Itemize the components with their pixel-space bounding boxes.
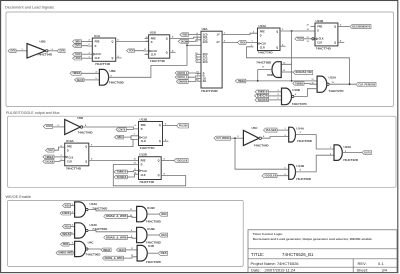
net label DEC6 (row3 to U4D) xyxy=(116,248,125,252)
svg-text:11: 11 xyxy=(131,248,133,250)
svg-text:TMIE6: TMIE6 xyxy=(116,172,127,174)
flip-flop U12A xyxy=(258,28,281,51)
inverter U5C xyxy=(243,130,259,145)
svg-text:74HCT32D: 74HCT32D xyxy=(146,260,162,264)
svg-text:U5C: U5C xyxy=(252,126,259,130)
svg-text:CLR: CLR xyxy=(141,140,146,143)
wire and row1 output to WE6 label xyxy=(147,213,159,215)
svg-text:U13D: U13D xyxy=(147,206,156,210)
or-gate U4D xyxy=(137,245,147,261)
svg-text:Q: Q xyxy=(85,160,87,163)
svg-text:U13B: U13B xyxy=(140,117,149,121)
svg-text:TOGGLE6: TOGGLE6 xyxy=(264,176,277,178)
svg-text:11: 11 xyxy=(130,209,132,211)
svg-text:TMIE6: TMIE6 xyxy=(75,41,81,43)
svg-text:CLR: CLR xyxy=(151,54,156,57)
svg-text:74HCT74D: 74HCT74D xyxy=(150,59,166,63)
svg-text:Q: Q xyxy=(166,51,168,54)
nor-gate U15A xyxy=(317,76,327,92)
svg-text:2C3: 2C3 xyxy=(203,60,208,64)
wire PULSE6 to U14A input 1 xyxy=(277,129,289,131)
svg-text:74HCT74D: 74HCT74D xyxy=(258,51,274,55)
junction U12A Q branch on long wire xyxy=(291,80,293,82)
net label OUT6 xyxy=(362,151,372,155)
net label CNT6 (output of U5B) xyxy=(57,49,65,53)
and-gate U6D (mirrored) xyxy=(272,62,281,78)
svg-text:12: 12 xyxy=(131,255,133,257)
flip-flop U13B xyxy=(139,122,163,146)
wire TOGGLE6 to U14B input 2 xyxy=(277,175,289,177)
svg-text:RATIO0_6: RATIO0_6 xyxy=(177,72,188,75)
svg-text:U4D: U4D xyxy=(148,244,155,248)
svg-text:PRE: PRE xyxy=(95,40,100,43)
wire nand row1 output to and row1 input 1 xyxy=(88,210,137,211)
net label WR6 (U4C input 1) xyxy=(61,243,69,247)
svg-text:U13B: U13B xyxy=(147,227,156,231)
svg-text:U5B: U5B xyxy=(40,40,47,44)
svg-text:TMIE6: TMIE6 xyxy=(45,157,54,159)
wire U4D output to OE6 label xyxy=(147,252,158,254)
wires TMIE6 to U13B CLK and CLR xyxy=(124,136,139,137)
svg-text:74HCT74D: 74HCT74D xyxy=(139,180,155,184)
svg-text:Q: Q xyxy=(159,124,161,127)
net label WE6 (row3 mid) xyxy=(101,248,111,252)
svg-text:11: 11 xyxy=(312,79,314,81)
svg-text:3: 3 xyxy=(278,90,279,92)
svg-text:WR6: WR6 xyxy=(63,244,69,246)
svg-text:RD6: RD6 xyxy=(62,213,70,215)
svg-text:D: D xyxy=(151,41,153,44)
svg-text:U14B: U14B xyxy=(296,164,305,168)
svg-text:74HCT00D: 74HCT00D xyxy=(85,252,101,256)
net label TACK6 (U12B CLK) xyxy=(295,37,304,40)
svg-text:Date:: Date: xyxy=(251,268,261,273)
svg-text:TMIE6: TMIE6 xyxy=(182,34,188,36)
wire OUT_MODE6 to U5C input xyxy=(231,137,244,139)
wires into U13D CLK/CLR xyxy=(127,171,138,172)
svg-text:74HCT27D: 74HCT27D xyxy=(292,102,308,106)
flip-flop U1B xyxy=(149,35,170,58)
svg-text:U14A: U14A xyxy=(296,126,305,130)
inverter U5B xyxy=(27,44,46,59)
svg-text:TACK6: TACK6 xyxy=(297,38,303,41)
net label OE6 (row3 output) xyxy=(158,251,167,255)
pin numbers mux left group1 (6,5,4,3) xyxy=(197,33,199,43)
net label DEC6 (U6B input 2) xyxy=(75,78,85,82)
svg-text:74HCT74D: 74HCT74D xyxy=(66,166,82,170)
svg-text:Q: Q xyxy=(112,40,114,43)
svg-text:U12B: U12B xyxy=(316,19,325,23)
svg-text:TMIE6: TMIE6 xyxy=(72,73,81,75)
svg-text:D: D xyxy=(95,45,97,48)
net label PULSE6 (U14A input 1) xyxy=(264,128,278,132)
net label PULSE6 xyxy=(177,124,189,128)
svg-text:CNT6: CNT6 xyxy=(59,51,64,53)
svg-text:74HCT08D: 74HCT08D xyxy=(146,219,162,223)
wires into U1A left pins xyxy=(82,41,93,43)
or-gate U16A xyxy=(334,145,342,161)
svg-text:U4C: U4C xyxy=(88,240,95,244)
wire junction down to U6D input and U15A input (vertical) xyxy=(281,31,291,64)
junction at mux pin tap xyxy=(186,45,188,47)
wire DMAB label row2 to and gate input 2 xyxy=(127,236,136,239)
svg-text:74HCT6526_B1: 74HCT6526_B1 xyxy=(282,252,314,257)
svg-text:U15A: U15A xyxy=(329,76,338,80)
net label TACK6 (U16B input 3) xyxy=(255,98,269,102)
svg-text:U12A: U12A xyxy=(259,24,268,28)
pin numbers mux A,B,1G,2G (14,2,1,15) xyxy=(196,71,199,82)
inverter U5D xyxy=(65,119,81,134)
net label DECREMENT6 xyxy=(350,25,371,29)
nand-gate U13A (WE/OE section) xyxy=(75,202,86,217)
stub U12B PRE xyxy=(311,26,316,28)
svg-text:CLK: CLK xyxy=(142,136,147,139)
svg-text:74HCT08D: 74HCT08D xyxy=(109,80,125,84)
svg-text:PULSE6: PULSE6 xyxy=(266,130,277,132)
svg-text:TACK6: TACK6 xyxy=(129,50,134,53)
wire U6D input2 from MODE/PER_SW label xyxy=(281,71,293,73)
svg-text:D: D xyxy=(141,128,143,131)
svg-text:D: D xyxy=(67,150,69,153)
and-gate U14A xyxy=(289,127,296,142)
net label OE6 (row2 output) xyxy=(159,233,168,237)
section box: PULSE/TOGGLE output and Mux xyxy=(8,116,397,187)
svg-text:Q: Q xyxy=(334,41,336,44)
svg-text:3/4: 3/4 xyxy=(382,268,388,273)
svg-text:CNT6: CNT6 xyxy=(75,46,82,48)
net label TMIE6 (U15A input 2) xyxy=(293,82,304,86)
svg-text:74HCT04D: 74HCT04D xyxy=(254,143,270,147)
net label RATIO0 (mux A) xyxy=(175,71,188,75)
junction U6D output on long wire xyxy=(257,80,259,82)
svg-text:74HCT74D: 74HCT74D xyxy=(316,47,332,51)
svg-text:REV:: REV: xyxy=(358,261,367,266)
svg-text:CLR: CLR xyxy=(260,46,265,49)
net label TMIE6 (U13B CLK/CLR) xyxy=(115,135,124,139)
svg-text:CLR: CLR xyxy=(141,174,146,177)
net label DMAB_&_WR6 (row2) xyxy=(104,235,128,239)
wire DMAB label row3 to U4D input 2 xyxy=(124,257,138,258)
flip-flop U13D xyxy=(139,157,162,180)
net label TOGGLE6 xyxy=(174,158,188,162)
wire TACK6 to U1B CLK xyxy=(135,50,149,52)
svg-text:TMIE6: TMIE6 xyxy=(295,83,304,85)
svg-text:CLR_PERIOD6: CLR_PERIOD6 xyxy=(358,84,376,86)
svg-text:Q: Q xyxy=(159,140,161,143)
and-gate U6B xyxy=(99,69,108,85)
wire U16B output up to U15A input 3 xyxy=(294,89,317,97)
svg-text:74HCT08D: 74HCT08D xyxy=(297,139,313,143)
net label TRIG6 (on 2Y wire) xyxy=(237,41,246,45)
net label TACK6 (U5D input) xyxy=(43,124,52,128)
junction Qbar branch with U15A output xyxy=(349,83,351,85)
svg-text:U6D: U6D xyxy=(267,73,274,77)
svg-text:TRIG6: TRIG6 xyxy=(116,177,127,179)
wire and row2 output to OE6 label xyxy=(147,234,159,236)
wire TACK6 to U12B CLK bubble xyxy=(304,38,312,40)
svg-text:U5D: U5D xyxy=(77,116,84,120)
svg-text:PULSE/TOGGLE output and Mux: PULSE/TOGGLE output and Mux xyxy=(6,111,60,115)
svg-text:CLK: CLK xyxy=(142,170,147,173)
svg-text:0.1: 0.1 xyxy=(378,261,384,266)
svg-text:PRE: PRE xyxy=(141,159,146,162)
svg-text:PRE: PRE xyxy=(317,25,322,28)
svg-text:CLR: CLR xyxy=(95,57,100,60)
wires into nand U13C xyxy=(71,226,75,228)
and-gate U14B xyxy=(289,165,296,180)
net label TMIE6 (U6B input 1) xyxy=(70,71,81,75)
svg-text:WE/OE Enable: WE/OE Enable xyxy=(6,195,32,199)
svg-text:74HCT27D: 74HCT27D xyxy=(329,89,345,93)
wire U12A CLR to CLR_PERIOD node (long route) xyxy=(247,47,350,84)
svg-text:TMIE6: TMIE6 xyxy=(257,92,268,94)
wire TMIE6 to U15A input 2 xyxy=(304,82,317,85)
svg-text:CLK: CLK xyxy=(319,38,324,41)
wire CNT6 label stub xyxy=(126,129,133,131)
net label CLR_PERIOD6 xyxy=(356,82,376,86)
svg-text:Q: Q xyxy=(112,57,114,60)
svg-text:DMAB_&_WR6: DMAB_&_WR6 xyxy=(105,257,124,260)
net label WE6 (U13C input 2) xyxy=(60,232,71,236)
svg-text:CLK: CLK xyxy=(96,53,101,56)
net label WE6 (U13A-gate input 1) xyxy=(62,204,70,208)
svg-text:DEC6: DEC6 xyxy=(77,80,84,82)
net label RD6 (U13A-gate input 2) xyxy=(60,212,71,216)
svg-text:CLR: CLR xyxy=(317,41,322,44)
stubs mux 2C pins xyxy=(196,53,201,55)
net label TMIE6 (U13A CLK) xyxy=(43,155,54,159)
svg-text:D: D xyxy=(317,29,319,32)
clock bubble U12B xyxy=(312,38,314,40)
svg-text:Sheet:: Sheet: xyxy=(357,268,369,273)
net label DMAB_&_WR6 (row1) xyxy=(104,214,128,218)
svg-text:74HCT08D: 74HCT08D xyxy=(296,177,312,181)
net label CNT6 (on U5D output wire) xyxy=(116,128,126,132)
wire U4C output to WE6 label xyxy=(88,248,101,250)
svg-text:TMIE6: TMIE6 xyxy=(238,81,246,83)
flip-flop U1A xyxy=(92,38,115,61)
net label DMAB6 (mux strobe) xyxy=(176,80,188,84)
svg-text:U1A: U1A xyxy=(94,34,101,38)
net label MODE/PER_SW6 xyxy=(293,70,313,74)
svg-text:TACK6: TACK6 xyxy=(257,99,268,102)
junction on U12A Q wire xyxy=(291,30,293,32)
svg-text:PRE: PRE xyxy=(67,146,72,149)
net label PULSE6 (U13A PRE) xyxy=(46,148,55,152)
svg-text:TRIG6: TRIG6 xyxy=(240,42,246,44)
wire DEC6 to U4D input 1 xyxy=(126,249,138,251)
net label LOAD6 (U1A CLR) xyxy=(73,57,82,61)
svg-text:OE6: OE6 xyxy=(161,235,167,237)
svg-text:TACK6: TACK6 xyxy=(45,160,54,163)
svg-text:Project Name: 74HCT6526: Project Name: 74HCT6526 xyxy=(251,261,300,266)
wire CNT6 to U5B input xyxy=(16,50,27,52)
svg-text:CNT6: CNT6 xyxy=(118,129,126,131)
svg-text:MODE/PER_SW6: MODE/PER_SW6 xyxy=(296,72,313,74)
wire nand row2 output to and row2 input 1 xyxy=(88,231,137,232)
wire DMAB label row1 to and gate input 2 xyxy=(127,216,136,217)
svg-text:TOGGLE6: TOGGLE6 xyxy=(176,160,188,162)
svg-text:TACK6: TACK6 xyxy=(75,53,81,56)
net label WE6 (row1 output) xyxy=(159,212,168,216)
wire U6D output to lower node xyxy=(258,70,272,81)
svg-text:PRE: PRE xyxy=(141,124,146,127)
svg-text:Q: Q xyxy=(158,174,160,177)
svg-text:PRE: PRE xyxy=(151,37,156,40)
svg-text:13: 13 xyxy=(134,173,136,175)
net label CNT6 (input to U5B) xyxy=(8,49,16,53)
svg-text:74HCT08D: 74HCT08D xyxy=(256,60,272,64)
svg-text:U13D: U13D xyxy=(139,153,148,157)
svg-text:CLK: CLK xyxy=(261,43,266,46)
svg-text:Decrement and Load generator,: Decrement and Load generator, Outpu gene… xyxy=(253,237,372,241)
svg-text:U13A: U13A xyxy=(66,139,75,143)
net label TACK6 (U1B CLK) xyxy=(127,49,135,53)
svg-text:Timer Control Logic.: Timer Control Logic. xyxy=(253,232,283,236)
svg-text:74HCT04D: 74HCT04D xyxy=(37,53,53,57)
svg-text:DMAB6: DMAB6 xyxy=(179,80,188,83)
net label TRIG6 (U13D CLR) xyxy=(114,175,127,179)
title block frame xyxy=(248,230,397,273)
svg-text:2Y: 2Y xyxy=(217,40,220,44)
svg-text:Decrement and Load Signals: Decrement and Load Signals xyxy=(5,6,54,10)
svg-text:DEC6: DEC6 xyxy=(257,96,269,98)
and-gate U4C xyxy=(75,241,86,256)
pin numbers mux left group2 (10,11,12,13) xyxy=(195,53,198,63)
wire U5B output to CNT6 flag xyxy=(48,50,57,52)
svg-text:CNT6: CNT6 xyxy=(10,51,15,53)
wires into U4C xyxy=(69,243,75,245)
net label RD6 (U13C input 1) xyxy=(62,225,70,229)
svg-text:OE6: OE6 xyxy=(161,253,168,255)
svg-text:11: 11 xyxy=(130,215,132,217)
svg-text:DMAB_&_WR6: DMAB_&_WR6 xyxy=(106,236,127,239)
svg-text:TACK6: TACK6 xyxy=(46,125,53,128)
and-gate U13B (WE/OE section) xyxy=(137,227,147,242)
svg-text:Q: Q xyxy=(166,37,168,40)
svg-text:WE6: WE6 xyxy=(65,205,71,207)
svg-text:WE6: WE6 xyxy=(103,250,111,252)
svg-text:1C3: 1C3 xyxy=(203,40,208,44)
wires into U16B xyxy=(269,91,282,93)
net label TOGGLE6 (U14B input 2) xyxy=(262,174,277,178)
svg-text:DEC6: DEC6 xyxy=(119,250,126,252)
svg-text:74HCT153D: 74HCT153D xyxy=(201,89,219,93)
long wire TMIE/U6D/U12A node to U15A input 1 xyxy=(246,80,317,82)
flip-flop U12B xyxy=(315,23,338,46)
svg-text:PRE: PRE xyxy=(260,30,265,33)
wires into U6B xyxy=(81,72,99,74)
wire U6B output up to mux pin (shared vertical with TACK6 branch) xyxy=(109,41,187,77)
svg-text:5: 5 xyxy=(131,236,132,238)
svg-text:TITLE:: TITLE: xyxy=(251,252,264,257)
svg-text:DMAB_&_WR6: DMAB_&_WR6 xyxy=(106,215,127,218)
svg-text:RD6: RD6 xyxy=(65,226,71,228)
net label TMIE6 (mux 1C0) xyxy=(180,33,189,37)
net label TMIE6 (left of long node wire) xyxy=(235,79,246,83)
net label RATIO1 (mux B) xyxy=(175,76,188,80)
and-gate U13D (WE/OE section) xyxy=(137,206,147,221)
net label DMAB_&_WR6 (row3) xyxy=(102,256,123,260)
svg-text:D: D xyxy=(260,34,262,37)
section box: WE/OE Enable xyxy=(8,200,244,266)
svg-text:Q: Q xyxy=(276,30,278,33)
svg-text:OUT6: OUT6 xyxy=(364,152,371,154)
svg-text:D: D xyxy=(141,163,143,166)
svg-text:WE6: WE6 xyxy=(161,214,167,216)
nor-gate U16B xyxy=(282,88,292,105)
wire TACK6 to mux pin 4 and branch down to 2C pins xyxy=(189,40,202,42)
stub U1B PRE xyxy=(145,37,149,39)
wire TMIE6 to mux pin 6 xyxy=(189,34,202,36)
svg-text:PULSE6: PULSE6 xyxy=(179,126,189,128)
svg-text:12: 12 xyxy=(312,83,314,85)
net label TMIE6 (U13D CLK) xyxy=(114,170,127,174)
svg-text:Q: Q xyxy=(85,146,87,149)
svg-text:U16B: U16B xyxy=(292,88,301,92)
wire OUT_MODE branch down to U14B input xyxy=(235,138,289,169)
svg-text:U6B: U6B xyxy=(110,69,117,73)
flip-flop U13A xyxy=(65,143,89,166)
svg-text:Q: Q xyxy=(158,159,160,162)
svg-text:U2A: U2A xyxy=(202,27,209,31)
svg-text:74HCT32D: 74HCT32D xyxy=(343,158,359,162)
net label TMIE6 (U16B input 1) xyxy=(255,90,269,94)
svg-text:2G: 2G xyxy=(203,79,207,83)
svg-text:RATIO1_6: RATIO1_6 xyxy=(177,76,188,79)
multiplexer U2A 74HCT153D xyxy=(201,31,222,88)
svg-text:Q: Q xyxy=(276,46,278,49)
svg-text:20/07/2019 11:24: 20/07/2019 11:24 xyxy=(265,268,297,273)
wire U15A output to CLR_PERIOD label xyxy=(329,83,356,85)
junction OUT_MODE branch xyxy=(234,137,236,139)
svg-text:LOAD6: LOAD6 xyxy=(75,57,81,60)
net label TACK6 (mux 1C2) xyxy=(178,40,188,44)
svg-text:CLR: CLR xyxy=(67,160,72,163)
junction at TACK6 branch xyxy=(186,41,188,43)
svg-text:PULSE/T: PULSE/T xyxy=(48,150,54,152)
svg-text:Q: Q xyxy=(334,25,336,28)
svg-text:DECREMENT6: DECREMENT6 xyxy=(352,26,371,28)
svg-text:11: 11 xyxy=(134,169,136,171)
wires into U13A xyxy=(54,147,65,150)
svg-text:OUT_MODE6: OUT_MODE6 xyxy=(216,138,230,140)
svg-text:5: 5 xyxy=(278,98,279,100)
section box: Decrement and Load Signals xyxy=(6,12,394,107)
svg-text:74HCT74D: 74HCT74D xyxy=(140,146,156,150)
net label CNT6 (U1A D) xyxy=(73,44,82,48)
net label OUT_MODE6 xyxy=(214,136,231,140)
svg-text:74HCT74D: 74HCT74D xyxy=(95,62,111,66)
svg-text:U1B: U1B xyxy=(150,31,157,35)
net label RAMBUS_MMIO6 (U4C input 2) xyxy=(56,251,73,255)
net label DEC6 (U16B input 2) xyxy=(255,94,269,98)
stub U1B CLR xyxy=(145,54,149,56)
svg-text:1Y: 1Y xyxy=(217,32,220,36)
net label TACK6 (U1A CLK) xyxy=(73,52,82,56)
svg-text:74HCT04D: 74HCT04D xyxy=(78,130,94,134)
wires into nand U15A-row1 xyxy=(71,205,75,207)
net label TACK6 (U13A CLR) xyxy=(43,160,54,164)
svg-text:CLK: CLK xyxy=(68,157,73,160)
nand-gate U13C xyxy=(75,223,86,238)
net label TMIE6 (U1A PRE) xyxy=(73,40,82,44)
wire TACK6 to U5D xyxy=(53,126,65,128)
wires mux A/B/G pins xyxy=(188,72,201,74)
svg-text:TMIE6: TMIE6 xyxy=(117,137,123,139)
svg-text:U16A: U16A xyxy=(344,145,353,149)
